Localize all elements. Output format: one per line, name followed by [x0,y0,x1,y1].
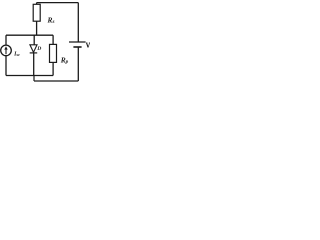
wire mid rail [6,34,53,36]
diode D cathode bar [30,52,38,54]
wire left branch lower [5,56,7,76]
wire diode top stub [33,35,35,45]
svg-text:Rp: Rp [60,56,69,66]
diode D triangle [30,45,37,53]
resistor R_s box [33,4,40,21]
resistor R_p box [50,44,57,62]
wire bottom rail right [34,80,78,82]
battery V long plate [69,41,86,43]
svg-text:Isc: Isc [13,52,20,58]
wire R_p top stub [52,35,54,44]
wire R_s bottom stub [36,21,38,35]
wire bottom rail left [6,75,53,77]
wire R_p bottom stub [52,62,54,75]
svg-text:Rs: Rs [47,16,55,26]
current source arrow [5,48,7,54]
wire top rail [37,2,79,4]
wire R_s top stub [36,3,38,5]
label V [86,43,90,48]
wire diode bottom stub [33,53,35,76]
current source I_sc circle [1,45,12,56]
battery V short plate [73,46,81,48]
svg-text:D: D [36,46,41,52]
wire bottom jog [33,76,35,82]
wire battery top lead [77,3,79,42]
wire left branch upper [5,35,7,45]
wire battery bottom lead [77,47,79,81]
